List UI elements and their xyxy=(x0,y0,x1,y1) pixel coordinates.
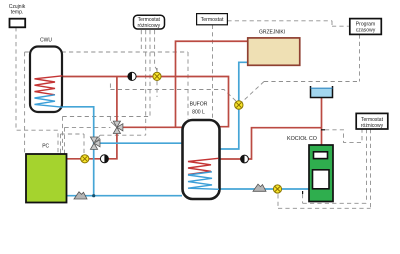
svg-text:różnicowy: różnicowy xyxy=(137,23,160,29)
svg-text:PC: PC xyxy=(42,144,49,150)
svg-text:czasowy: czasowy xyxy=(356,27,376,33)
svg-text:KOCIOŁ CO: KOCIOŁ CO xyxy=(287,136,317,142)
svg-text:CWU: CWU xyxy=(40,38,52,44)
svg-text:różnicowy: różnicowy xyxy=(361,123,384,129)
svg-text:BUFOR: BUFOR xyxy=(190,101,208,107)
svg-text:GRZEJNIKI: GRZEJNIKI xyxy=(259,29,285,35)
svg-text:800 L: 800 L xyxy=(192,109,205,115)
svg-text:Termostat: Termostat xyxy=(201,17,224,23)
svg-text:temp.: temp. xyxy=(11,9,24,15)
